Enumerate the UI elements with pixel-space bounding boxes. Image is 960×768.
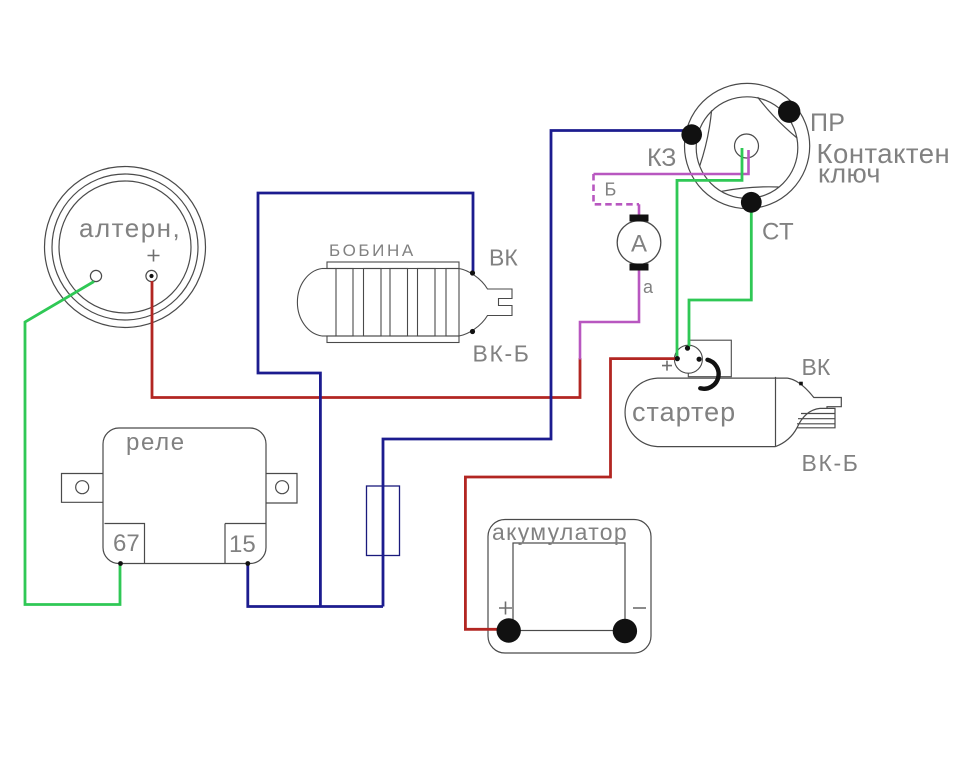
ignition switch body	[685, 83, 810, 208]
ignition switch terminal ПР	[778, 101, 800, 123]
alternator body	[45, 167, 206, 328]
wire red: starter plus to battery plus	[465, 359, 676, 630]
ignition switch terminal СТ	[741, 192, 762, 213]
wire green: ignition switch center to starter solenoid left	[677, 148, 742, 357]
wire blue: fuse vertical to ignition switch КЗ	[383, 131, 687, 607]
coil terminal ВК-Б dot	[470, 329, 475, 334]
svg-text:Б: Б	[605, 180, 617, 200]
starter ignition arrow arc	[700, 360, 718, 389]
wire green: alternator terminal to relay 67	[25, 282, 120, 605]
starter solenoid terminal left dot	[675, 356, 680, 361]
ammeter terminal bar top	[630, 215, 649, 222]
wire magenta dashed: node Б to ammeter top	[594, 174, 640, 204]
battery plus mark	[499, 602, 512, 615]
starter solenoid rectangle	[688, 340, 731, 377]
wire blue: coil loop from coil ВК terminal to junction	[258, 193, 473, 607]
svg-text:СТ: СТ	[762, 219, 794, 246]
svg-text:реле: реле	[126, 429, 186, 456]
battery body	[488, 520, 651, 654]
battery terminal plus	[497, 618, 521, 642]
svg-text:стартер: стартер	[632, 397, 736, 427]
starter solenoid terminal top dot	[685, 346, 690, 351]
wire magenta: short drop into ammeter terminal	[638, 204, 641, 215]
ammeter body	[617, 221, 661, 265]
svg-text:алтерн,: алтерн,	[79, 213, 181, 243]
svg-text:ВК-Б: ВК-Б	[473, 341, 531, 367]
svg-text:КЗ: КЗ	[647, 144, 676, 172]
svg-text:15: 15	[229, 531, 256, 558]
battery minus mark	[633, 607, 646, 609]
starter body	[625, 377, 841, 447]
coil body бобина	[297, 262, 512, 343]
wire magenta: ammeter bottom to red junction	[580, 271, 639, 360]
svg-text:ВК-Б: ВК-Б	[802, 450, 860, 476]
alternator plus mark	[148, 250, 160, 262]
relay junction dot 67	[118, 561, 123, 566]
alternator terminal plus dot	[149, 274, 153, 278]
relay junction dot 15	[245, 561, 250, 566]
svg-text:ВК: ВК	[489, 245, 518, 271]
starter solenoid circle	[674, 345, 702, 373]
wire magenta: switch center to node Б solid	[594, 150, 749, 174]
ammeter terminal bar bottom	[630, 264, 649, 271]
relay body	[62, 428, 298, 564]
wire blue: relay 15 up to fuse bottom horizontal	[248, 564, 383, 607]
svg-text:БОБИНА: БОБИНА	[329, 241, 416, 260]
starter ВК terminal dot	[799, 382, 803, 386]
starter solenoid terminal right dot	[697, 357, 702, 362]
starter plus mark	[662, 361, 672, 371]
alternator terminal plus	[146, 270, 157, 281]
svg-text:ПР: ПР	[810, 109, 845, 137]
svg-text:А: А	[631, 231, 647, 258]
alternator terminal left	[90, 270, 101, 281]
svg-text:акумулатор: акумулатор	[492, 519, 628, 545]
fuse	[367, 486, 400, 556]
coil terminal ВК dot	[470, 270, 475, 275]
battery terminal minus	[613, 619, 637, 643]
svg-text:ключ: ключ	[818, 159, 881, 189]
svg-text:67: 67	[113, 530, 140, 557]
svg-text:ВК: ВК	[802, 354, 831, 380]
wire red: alternator plus down and right to ammeter net	[152, 281, 580, 398]
wire green: ignition switch СТ to starter solenoid top	[689, 207, 751, 347]
svg-text:а: а	[643, 277, 654, 297]
ignition switch terminal КЗ	[681, 124, 702, 145]
